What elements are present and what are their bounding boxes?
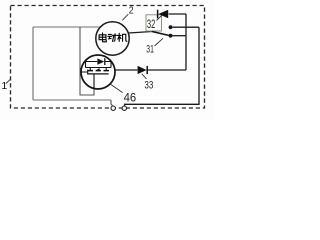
switch lower contact dot xyxy=(169,34,173,38)
mosfet drain-source rail xyxy=(86,67,112,69)
body diode bar xyxy=(104,58,106,65)
svg-text:1: 1 xyxy=(1,80,7,92)
mosfet gate lead from left xyxy=(81,70,88,75)
right terminal circle xyxy=(122,106,126,110)
diode D32 cathode bar xyxy=(157,10,159,19)
switch upper contact dot xyxy=(169,25,173,29)
mosfet unit circle 46 xyxy=(81,55,115,89)
mosfet gate bar xyxy=(87,73,108,75)
wire diode 33 to right vertical xyxy=(147,69,186,71)
svg-text:31: 31 xyxy=(146,43,154,55)
inner rectangle bottom edge xyxy=(33,99,111,101)
svg-text:32: 32 xyxy=(147,17,155,31)
diode D33 cathode bar xyxy=(146,66,148,74)
frame box around label 32 xyxy=(146,15,162,31)
svg-text:46: 46 xyxy=(124,91,137,105)
leader for label 46 xyxy=(110,84,123,93)
mosfet bottom stub to source wire xyxy=(93,75,95,89)
leader for label 32 xyxy=(157,13,165,20)
wire mosfet to diode 33 xyxy=(115,69,137,71)
motor M1 circle xyxy=(96,22,129,55)
dashed enclosure box 1 xyxy=(11,6,205,109)
inner rectangle top edge xyxy=(33,26,101,28)
wire lower contact to vertical xyxy=(172,35,186,37)
leader for label 1 xyxy=(6,79,11,84)
wire upper contact to right outer xyxy=(172,26,199,28)
motor right lead wire xyxy=(129,32,152,34)
diode D32 triangle xyxy=(158,10,168,19)
leader for label 33 xyxy=(142,74,147,79)
link bottom edge to left terminal xyxy=(111,100,113,106)
mosfet arrow xyxy=(96,68,100,71)
right inner vertical wire xyxy=(185,14,187,70)
svg-text:2: 2 xyxy=(129,6,134,17)
diode D33 triangle xyxy=(138,66,147,74)
glyph 电 xyxy=(99,33,106,42)
glyph 机 xyxy=(118,33,127,41)
right outer wire down and to right terminal xyxy=(125,27,199,105)
leader for label 2 xyxy=(122,14,128,20)
mosfet taps xyxy=(90,68,106,71)
left terminal circle xyxy=(111,106,115,110)
leader for label 31 xyxy=(155,38,164,46)
mosfet channel segments xyxy=(88,70,109,72)
inner rectangle left edge xyxy=(32,27,34,100)
motor text 电动机 xyxy=(99,33,127,42)
svg-text:33: 33 xyxy=(144,79,153,91)
body diode top chord wires xyxy=(86,62,112,68)
switch 31 blade xyxy=(152,32,169,36)
wire diode 32 to right vertical xyxy=(169,13,186,15)
glyph 动 xyxy=(108,34,117,41)
wire vertical branch to mosfet source xyxy=(80,27,94,95)
body diode triangle xyxy=(97,58,104,64)
